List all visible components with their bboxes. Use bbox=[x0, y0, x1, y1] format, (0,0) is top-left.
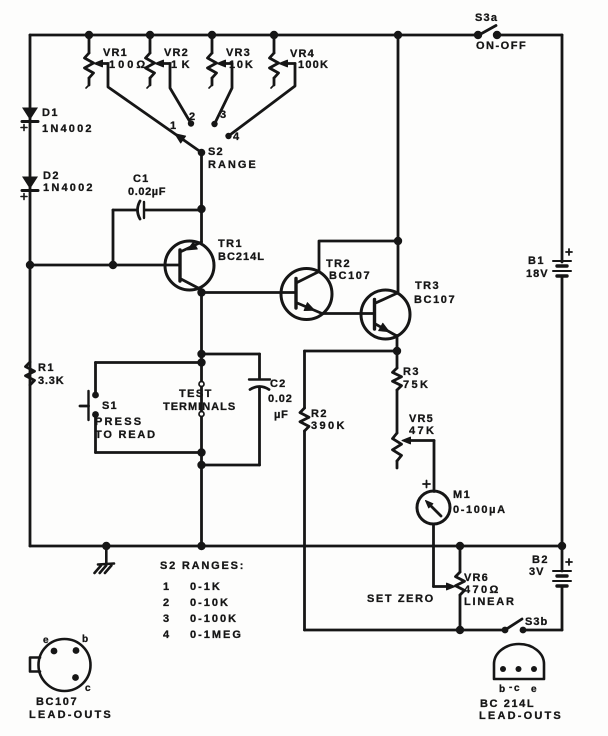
svg-text:0-100µA: 0-100µA bbox=[453, 504, 507, 516]
svg-text:470Ω: 470Ω bbox=[464, 584, 501, 596]
svg-text:VR1: VR1 bbox=[103, 47, 128, 59]
svg-text:ON-OFF: ON-OFF bbox=[476, 40, 527, 52]
svg-text:0-10K: 0-10K bbox=[190, 597, 230, 609]
svg-text:b: b bbox=[82, 634, 88, 645]
svg-text:BC107: BC107 bbox=[329, 270, 371, 282]
svg-text:100Ω: 100Ω bbox=[109, 59, 148, 71]
svg-text:R3: R3 bbox=[403, 366, 420, 378]
svg-text:TEST: TEST bbox=[179, 388, 213, 400]
svg-text:R1: R1 bbox=[38, 362, 55, 374]
svg-text:0.02µF: 0.02µF bbox=[128, 186, 166, 198]
svg-text:B2: B2 bbox=[532, 554, 549, 566]
svg-text:SET ZERO: SET ZERO bbox=[367, 593, 435, 605]
svg-text:TR1: TR1 bbox=[218, 238, 243, 250]
svg-text:2: 2 bbox=[163, 597, 169, 609]
svg-text:100K: 100K bbox=[298, 59, 329, 71]
svg-text:TR2: TR2 bbox=[326, 258, 351, 270]
svg-text:0-1K: 0-1K bbox=[190, 581, 222, 593]
svg-text:S3a: S3a bbox=[475, 12, 498, 24]
svg-text:-: - bbox=[509, 682, 512, 693]
svg-text:TR3: TR3 bbox=[415, 280, 440, 292]
svg-text:µF: µF bbox=[274, 409, 289, 421]
svg-text:0-1MEG: 0-1MEG bbox=[190, 629, 243, 641]
svg-text:e: e bbox=[43, 635, 49, 646]
svg-text:VR3: VR3 bbox=[226, 47, 251, 59]
svg-text:1: 1 bbox=[170, 120, 176, 132]
svg-text:VR2: VR2 bbox=[164, 47, 189, 59]
svg-text:c: c bbox=[85, 683, 91, 694]
svg-text:S1: S1 bbox=[102, 400, 118, 412]
svg-text:e: e bbox=[531, 684, 537, 695]
svg-text:0.02: 0.02 bbox=[268, 393, 293, 405]
svg-text:RANGE: RANGE bbox=[208, 159, 258, 171]
svg-text:S2: S2 bbox=[208, 146, 224, 158]
svg-text:C1: C1 bbox=[133, 173, 149, 185]
svg-text:2: 2 bbox=[189, 111, 195, 123]
svg-text:1K: 1K bbox=[171, 59, 194, 71]
svg-text:LEAD-OUTS: LEAD-OUTS bbox=[479, 710, 563, 722]
svg-text:1N4002: 1N4002 bbox=[42, 123, 94, 135]
svg-text:C2: C2 bbox=[270, 378, 286, 390]
svg-text:R2: R2 bbox=[311, 408, 328, 420]
svg-text:PRESS: PRESS bbox=[95, 416, 143, 428]
svg-text:B1: B1 bbox=[528, 255, 545, 267]
svg-text:S2 RANGES:: S2 RANGES: bbox=[160, 560, 245, 572]
svg-text:1: 1 bbox=[163, 581, 169, 593]
svg-text:10K: 10K bbox=[229, 59, 255, 71]
svg-text:VR5: VR5 bbox=[409, 413, 434, 425]
svg-text:BC107: BC107 bbox=[414, 294, 456, 306]
svg-text:0-100K: 0-100K bbox=[190, 613, 238, 625]
svg-text:VR6: VR6 bbox=[464, 572, 489, 584]
svg-text:BC 214L: BC 214L bbox=[480, 698, 535, 710]
svg-text:4: 4 bbox=[163, 629, 170, 641]
svg-text:D2: D2 bbox=[43, 170, 60, 182]
svg-text:1N4002: 1N4002 bbox=[43, 182, 95, 194]
svg-text:BC107: BC107 bbox=[36, 696, 78, 708]
svg-text:S3b: S3b bbox=[525, 616, 548, 628]
svg-text:c: c bbox=[514, 683, 520, 694]
svg-text:3: 3 bbox=[163, 613, 169, 625]
svg-text:BC214L: BC214L bbox=[218, 251, 265, 263]
svg-text:390K: 390K bbox=[311, 420, 347, 432]
svg-text:TO READ: TO READ bbox=[95, 429, 157, 441]
svg-text:3.3K: 3.3K bbox=[38, 375, 64, 387]
svg-text:D1: D1 bbox=[42, 107, 59, 119]
svg-text:18V: 18V bbox=[526, 268, 549, 280]
svg-text:TERMINALS: TERMINALS bbox=[163, 401, 236, 413]
svg-text:LINEAR: LINEAR bbox=[464, 596, 516, 608]
svg-text:4: 4 bbox=[233, 131, 240, 143]
svg-text:75K: 75K bbox=[403, 379, 430, 391]
svg-text:LEAD-OUTS: LEAD-OUTS bbox=[29, 709, 113, 721]
svg-text:47K: 47K bbox=[409, 425, 436, 437]
svg-text:b: b bbox=[499, 684, 505, 695]
svg-text:M1: M1 bbox=[453, 489, 471, 501]
svg-text:3V: 3V bbox=[529, 566, 544, 578]
svg-text:3: 3 bbox=[220, 109, 226, 121]
